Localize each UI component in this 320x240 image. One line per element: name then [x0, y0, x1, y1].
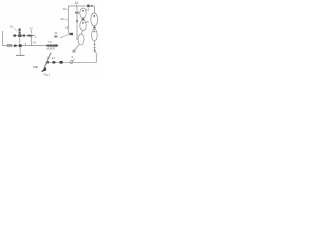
svg-text:MIXER: MIXER [47, 47, 55, 51]
component blob 2 on bottom line [53, 61, 56, 63]
svg-text:Fig.1: Fig.1 [44, 73, 51, 77]
mid horizontal line y45.6 [3, 45, 51, 47]
column C1 oval 1 (left column) [80, 8, 86, 18]
link oval2-vessel3 [82, 31, 83, 34]
drain vertical [19, 47, 21, 55]
column C2 oval 2 [92, 29, 98, 41]
leader tick for label 14 [75, 4, 77, 6]
valve V1 on mid vertical [75, 11, 78, 14]
pump P1 dark blob on top line [87, 5, 90, 8]
svg-text:13: 13 [52, 56, 56, 60]
cluster blob b junction [18, 34, 21, 37]
tick on mid vertical [76, 20, 78, 22]
junction blob on mid line [19, 44, 22, 47]
svg-text:7 8: 7 8 [48, 40, 52, 44]
leader tick for label 10 [66, 8, 68, 11]
tiny stand symbol [55, 33, 58, 34]
vessel V3 below left column [78, 34, 84, 45]
pinch valve between right ovals [93, 27, 95, 29]
dot inside C2 oval2 [94, 31, 96, 33]
dot inside C1 [82, 10, 84, 12]
thermometer line below C2 with ticks [94, 41, 96, 51]
wire right bus down to bottom [95, 50, 97, 62]
dot inside C1 oval2 [82, 22, 84, 24]
component blob on bottom line [47, 61, 50, 63]
column C1 oval 2 [80, 20, 86, 30]
svg-text:18: 18 [65, 26, 69, 30]
leader tick for label 20 [64, 18, 68, 21]
tiny dot right of cluster [35, 37, 36, 38]
svg-text:10: 10 [10, 25, 14, 29]
left vertical into mid line [2, 31, 4, 46]
svg-text:10: 10 [63, 7, 67, 11]
wire x19.8 between cluster line and mid line [19, 37, 21, 45]
link C2 ovals [93, 26, 95, 29]
svg-text:12: 12 [47, 56, 51, 60]
svg-text:15: 15 [86, 20, 90, 24]
arrow diagonal feed [44, 53, 51, 69]
leader from label 10 [14, 28, 18, 32]
junction dot on top line [91, 5, 93, 7]
blob on mid line [14, 45, 17, 47]
two circles on mid line [7, 44, 9, 46]
svg-text:20: 20 [61, 17, 65, 21]
pinch valve between left ovals [82, 18, 85, 20]
vertical from cluster down to mid line [31, 31, 33, 34]
column C2 oval 1 (right column) [91, 13, 98, 26]
component blob 3 on bottom line [60, 61, 63, 64]
vertical stack above cluster [19, 28, 21, 36]
svg-text:16: 16 [86, 8, 90, 12]
pump blob [70, 33, 74, 35]
wire bottom horizontal [45, 61, 96, 63]
valve with handle on bottom line [70, 61, 73, 64]
arrowhead [41, 67, 47, 72]
link between ovals [82, 18, 84, 21]
sloped leader to pump blob [60, 34, 70, 38]
drain bar [16, 54, 25, 56]
svg-text:WE: WE [33, 65, 38, 69]
wire left vertical from top line [67, 6, 69, 34]
svg-text:14: 14 [33, 41, 37, 45]
wire mid vertical line x77 [76, 6, 78, 40]
dot inside C2 [93, 15, 95, 17]
cluster end blob [28, 35, 33, 37]
arrow end on mid line [47, 45, 57, 47]
mid-left cluster horizontal line [13, 35, 35, 37]
small valve circle on drain [73, 50, 75, 52]
svg-text:12: 12 [30, 27, 34, 31]
drain line from vessel3 [73, 45, 79, 53]
node corner top-right [94, 6, 96, 13]
cluster blob a [14, 35, 17, 37]
tick above mid line [25, 43, 27, 46]
cluster blob c [23, 35, 25, 37]
wire top horizontal line [68, 5, 95, 7]
